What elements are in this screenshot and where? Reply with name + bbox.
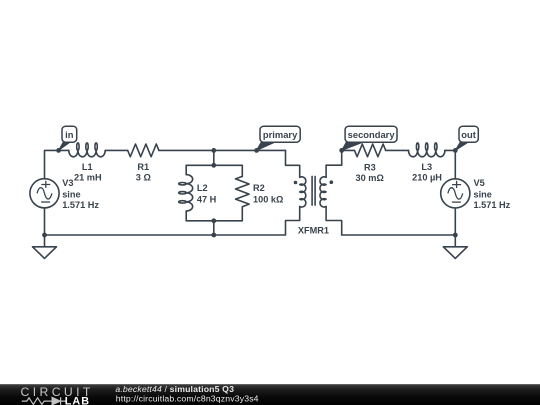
svg-text:http://circuitlab.com/c8n3qznv: http://circuitlab.com/c8n3qznv3y3s4 bbox=[116, 394, 259, 404]
svg-text:a.beckett44 / simulation5 Q3: a.beckett44 / simulation5 Q3 bbox=[115, 384, 234, 394]
wire bbox=[45, 207, 300, 236]
svg-text:30 mΩ: 30 mΩ bbox=[356, 173, 384, 183]
node primary bbox=[254, 148, 259, 153]
ground right bbox=[443, 235, 467, 258]
resistor R2 bbox=[236, 176, 250, 206]
node in bbox=[56, 148, 61, 153]
wire bbox=[186, 165, 242, 176]
node T1 bbox=[211, 148, 216, 153]
node out bbox=[453, 148, 458, 153]
inductor L2 bbox=[179, 175, 193, 211]
svg-text:210 µH: 210 µH bbox=[412, 172, 442, 182]
junction gnd-right bbox=[453, 233, 458, 238]
wire bbox=[213, 221, 215, 235]
junction box-bottom bbox=[211, 218, 216, 223]
svg-text:primary: primary bbox=[263, 129, 298, 140]
flag primary bbox=[257, 142, 276, 150]
inductor L1 bbox=[69, 143, 105, 157]
wire bbox=[105, 149, 128, 151]
wire bbox=[342, 149, 355, 151]
svg-text:V3: V3 bbox=[62, 178, 73, 188]
secondary phase dot bbox=[330, 180, 334, 184]
wire bbox=[213, 150, 215, 165]
ground left bbox=[33, 235, 57, 258]
svg-text:3 Ω: 3 Ω bbox=[136, 172, 151, 182]
flag in bbox=[59, 142, 71, 150]
svg-text:L2: L2 bbox=[197, 183, 208, 193]
junction gnd-left bbox=[42, 233, 47, 238]
junction rail bbox=[211, 233, 216, 238]
svg-text:1.571 Hz: 1.571 Hz bbox=[474, 200, 511, 210]
svg-text:sine: sine bbox=[474, 189, 492, 199]
svg-text:R3: R3 bbox=[364, 162, 376, 172]
flag out bbox=[455, 142, 468, 150]
resistor R3 bbox=[355, 144, 386, 157]
svg-text:47 H: 47 H bbox=[197, 194, 217, 204]
flag secondary bbox=[342, 142, 364, 150]
svg-text:LAB: LAB bbox=[65, 396, 90, 405]
wire bbox=[159, 149, 286, 151]
wire bbox=[286, 150, 300, 177]
svg-text:L1: L1 bbox=[82, 162, 93, 172]
wire bbox=[326, 207, 455, 236]
svg-text:100 kΩ: 100 kΩ bbox=[253, 194, 283, 204]
logo resistor-diode glyph bbox=[22, 398, 66, 405]
wire bbox=[445, 150, 455, 179]
svg-text:L3: L3 bbox=[421, 162, 432, 172]
primary phase dot bbox=[294, 181, 298, 185]
svg-text:R2: R2 bbox=[253, 183, 265, 193]
svg-text:XFMR1: XFMR1 bbox=[298, 226, 329, 236]
transformer core bbox=[312, 176, 315, 205]
wire bbox=[45, 150, 69, 178]
wire bbox=[386, 149, 409, 151]
svg-text:21 mH: 21 mH bbox=[74, 172, 102, 182]
svg-text:in: in bbox=[65, 129, 74, 140]
svg-text:out: out bbox=[461, 129, 476, 140]
transformer XFMR1 primary winding bbox=[300, 177, 306, 207]
voltage source V3 bbox=[30, 179, 59, 208]
voltage source V5 bbox=[441, 179, 470, 208]
transformer XFMR1 secondary winding bbox=[320, 177, 326, 207]
svg-text:R1: R1 bbox=[137, 162, 149, 172]
svg-text:secondary: secondary bbox=[348, 129, 396, 140]
resistor R1 bbox=[128, 144, 159, 157]
svg-text:1.571 Hz: 1.571 Hz bbox=[62, 200, 99, 210]
wire bbox=[326, 150, 342, 177]
svg-text:sine: sine bbox=[62, 189, 80, 199]
node secondary bbox=[339, 148, 344, 153]
junction box-top bbox=[211, 163, 216, 168]
inductor L3 bbox=[409, 143, 445, 157]
svg-text:V5: V5 bbox=[474, 178, 485, 188]
wire bbox=[186, 207, 242, 221]
